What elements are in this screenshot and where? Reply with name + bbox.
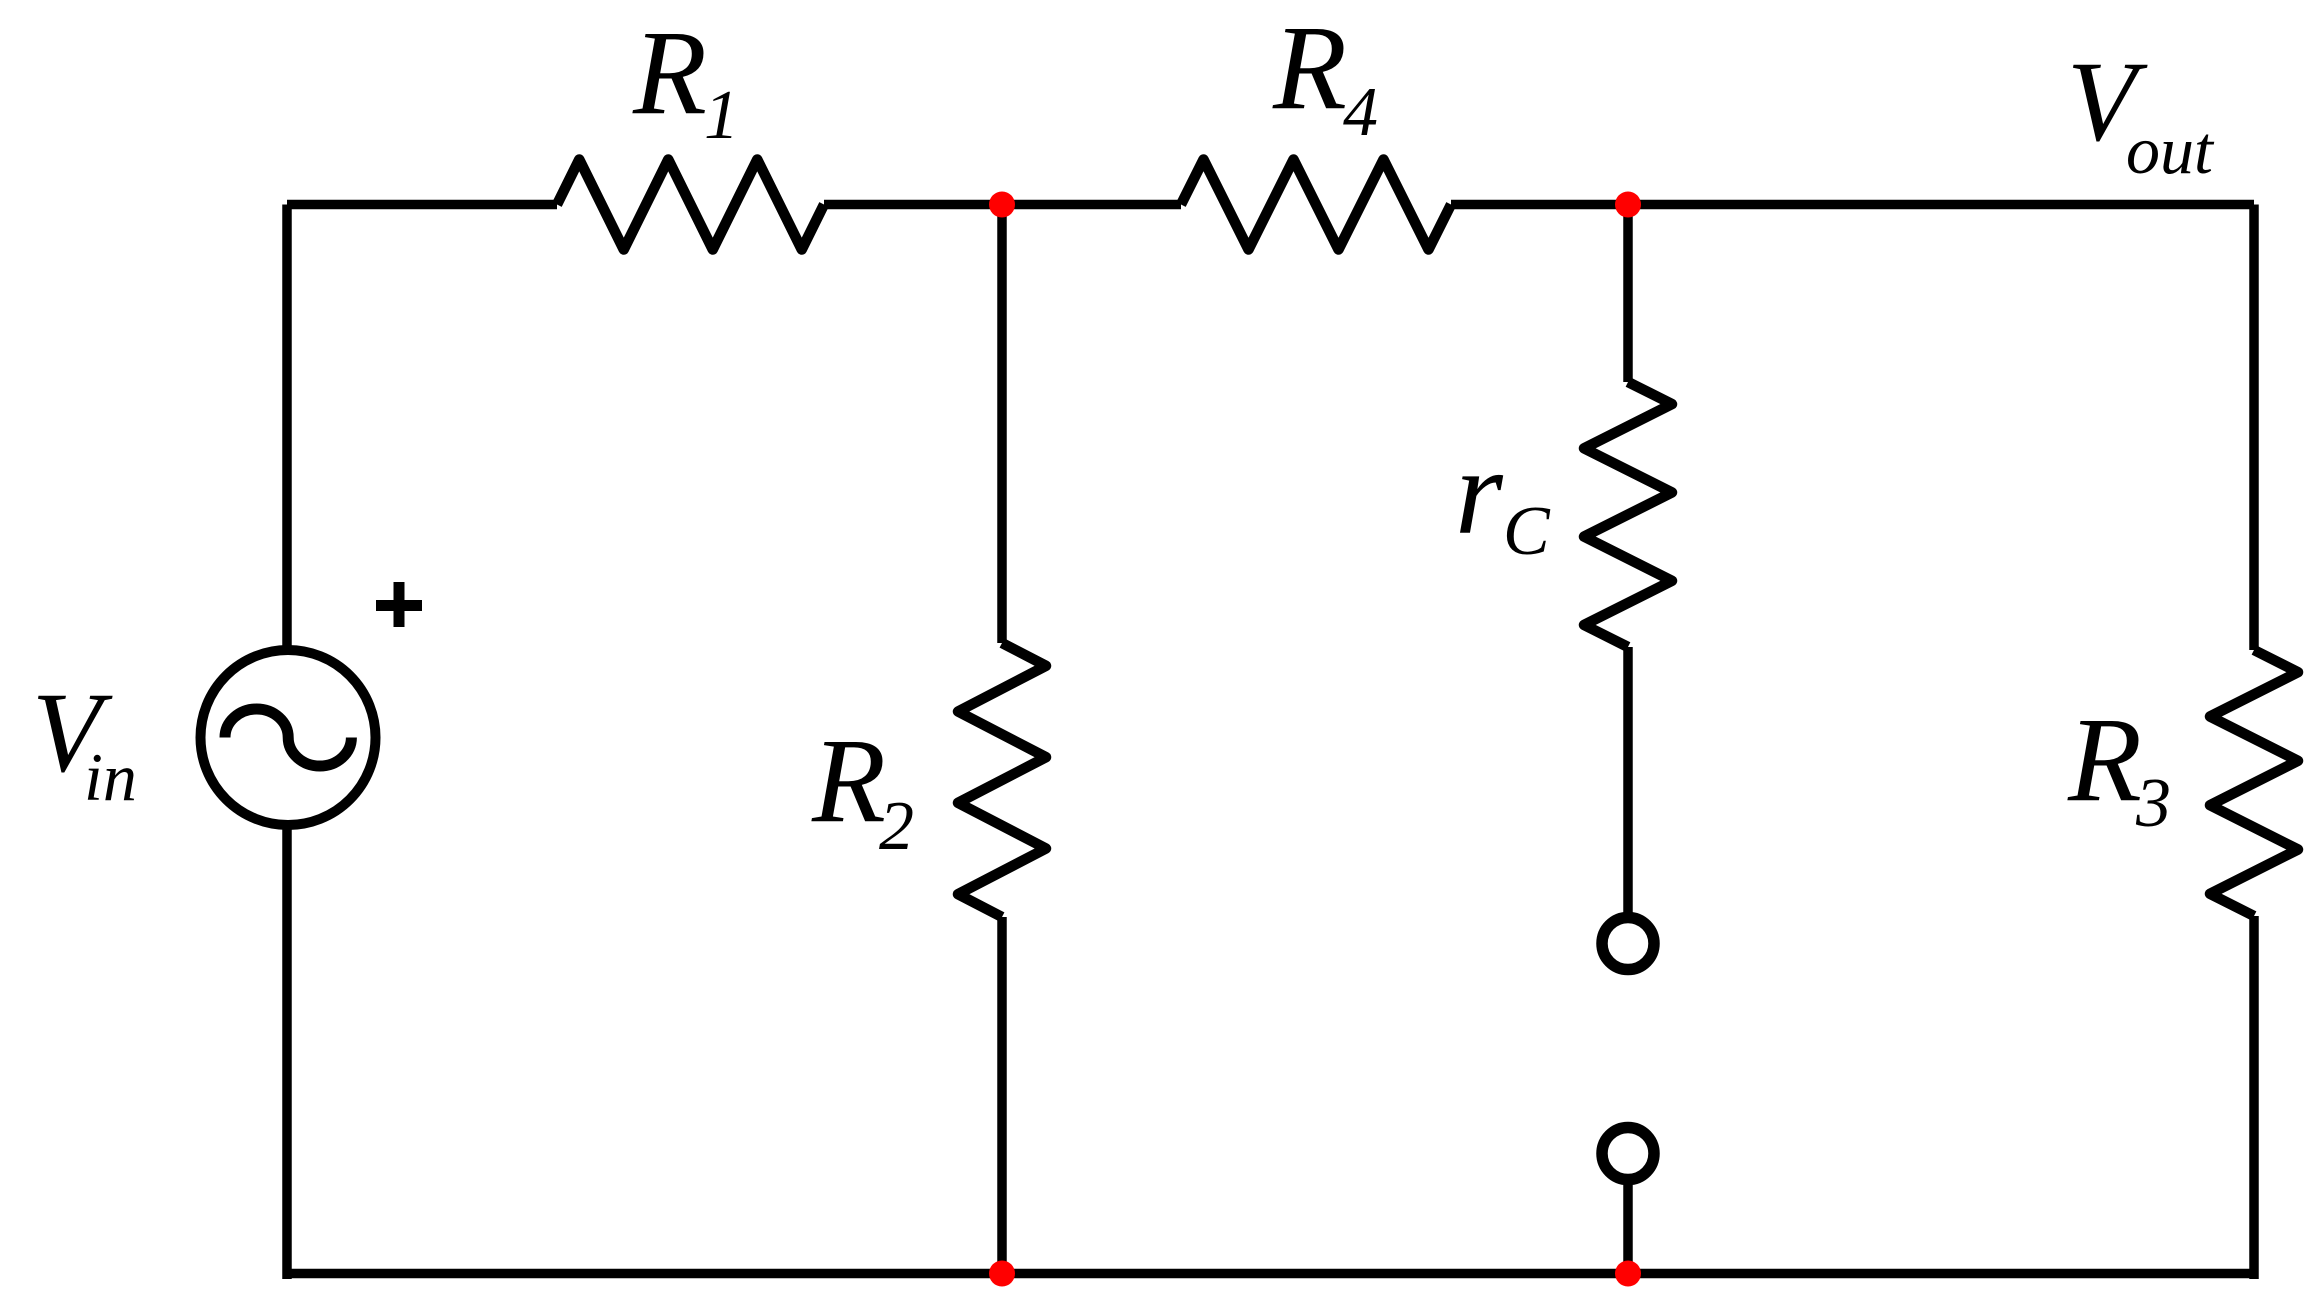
svg-text:R: R [811,714,886,848]
svg-text:in: in [84,739,137,815]
svg-text:r: r [1455,423,1504,560]
svg-text:4: 4 [1343,74,1378,151]
svg-text:R: R [1272,1,1347,135]
svg-text:1: 1 [704,77,739,154]
svg-text:C: C [1503,493,1551,570]
svg-text:R: R [2067,693,2142,827]
svg-text:2: 2 [879,788,914,865]
svg-text:R: R [632,6,707,140]
svg-text:3: 3 [2135,765,2171,842]
svg-text:out: out [2126,112,2215,188]
